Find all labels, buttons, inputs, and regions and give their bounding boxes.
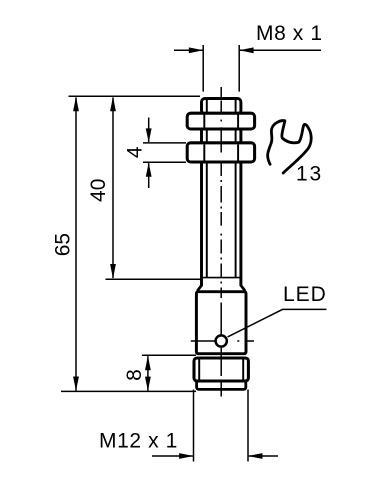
dimension line 65	[73, 97, 79, 392]
dimension 8 extension line	[142, 354, 196, 356]
svg-text:LED: LED	[283, 283, 327, 306]
LED window	[216, 335, 227, 346]
dimension M12 extension lines	[194, 390, 249, 462]
svg-text:8: 8	[123, 369, 146, 381]
dimension line 8	[145, 356, 151, 391]
centerline vertical	[220, 87, 222, 397]
extension line bottom datum	[61, 390, 196, 392]
connector nut M12	[194, 358, 248, 381]
svg-text:4: 4	[124, 146, 147, 158]
sensor body with LED	[196, 292, 246, 354]
dimension 4 extension lines	[143, 143, 186, 162]
sensor thread end cap	[202, 99, 241, 115]
svg-text:M12 x 1: M12 x 1	[99, 430, 178, 453]
dimension line M12	[152, 453, 278, 459]
dimension M8 extension lines	[203, 45, 239, 92]
connector end cap	[197, 381, 246, 389]
svg-text:65: 65	[52, 233, 75, 256]
extension line thread runout	[106, 278, 201, 280]
centerline LED horizontal	[191, 340, 254, 342]
svg-text:13: 13	[296, 163, 323, 186]
dimension line 4	[146, 118, 152, 189]
threaded barrel M8	[202, 162, 241, 286]
dimension line 40	[110, 97, 116, 279]
dimension line M8	[174, 47, 321, 53]
thread between nuts	[202, 127, 241, 144]
extension line top datum	[69, 95, 201, 97]
wrench icon 13	[268, 121, 312, 173]
svg-text:40: 40	[87, 179, 110, 202]
body shoulder chamfer	[197, 285, 245, 291]
hex nut 2	[187, 143, 254, 162]
LED leader line	[228, 309, 327, 337]
svg-text:M8 x 1: M8 x 1	[256, 22, 323, 45]
hex nut 1	[187, 113, 254, 129]
